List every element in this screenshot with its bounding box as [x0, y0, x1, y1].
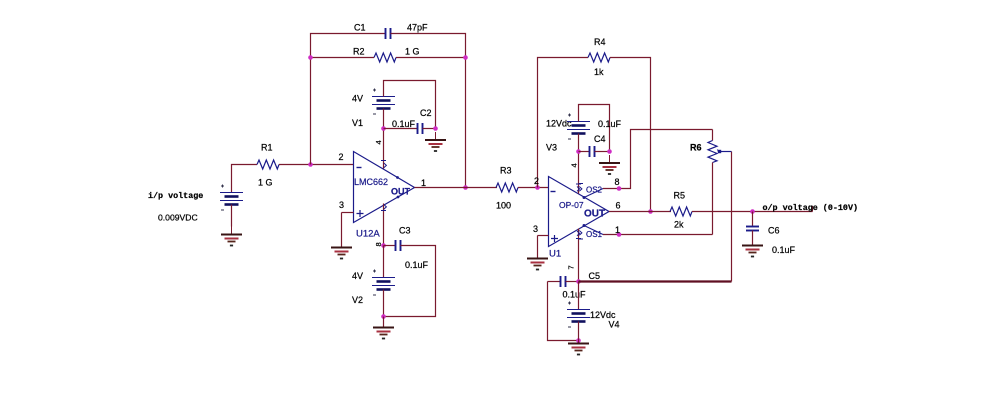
svg-text:4: 4	[374, 140, 383, 144]
junction pin7/C5/V4	[576, 279, 581, 284]
OS1 pin glyph	[583, 224, 586, 227]
capacitor C2	[418, 123, 423, 134]
wire V3 top loop to C4 right	[579, 105, 610, 152]
svg-text:R3: R3	[500, 166, 512, 176]
svg-text:R5: R5	[674, 191, 686, 201]
junction C4 right	[607, 149, 612, 154]
ground (input)	[221, 227, 242, 246]
wire C4 to ground node	[595, 151, 610, 153]
junction C6 at output	[750, 209, 755, 214]
junction R2 right	[463, 55, 468, 60]
battery V4	[567, 302, 590, 328]
junction OS2 wire	[617, 186, 622, 191]
wire V2 bottom to ground node	[383, 290, 385, 317]
resistor R5	[670, 207, 692, 216]
resistor R1	[257, 160, 279, 169]
wire C3 right loop to ground node	[384, 246, 436, 317]
svg-text:R1: R1	[261, 143, 273, 153]
wire OS1 to R6 bottom	[603, 234, 713, 236]
svg-text:2k: 2k	[674, 220, 684, 230]
junction V3/C4/pin4	[576, 149, 581, 154]
svg-text:12Vdc: 12Vdc	[546, 119, 572, 129]
capacitor C1	[386, 28, 391, 39]
wire pin3 to ground	[341, 213, 343, 248]
wire pin3	[342, 212, 354, 214]
wire U1 pin7 stub	[578, 229, 580, 282]
svg-text:i/p voltage: i/p voltage	[148, 191, 203, 201]
wire node to C4	[579, 151, 590, 153]
U1 pin 4 tick glyph	[576, 184, 581, 191]
resistor R2	[374, 53, 396, 62]
svg-text:2: 2	[339, 152, 344, 162]
capacitor C3	[396, 240, 401, 251]
svg-text:V4: V4	[609, 320, 620, 330]
svg-text:1 G: 1 G	[405, 47, 420, 57]
wire U1 output to R5	[609, 211, 671, 213]
op-amp U1 OP-07 triangle	[549, 177, 610, 247]
svg-text:100: 100	[496, 201, 511, 211]
wire Vin bottom to ground	[231, 205, 233, 227]
svg-text:OP-07: OP-07	[559, 200, 584, 210]
svg-text:C1: C1	[354, 23, 366, 33]
wire C2 to ground node	[423, 128, 436, 130]
junction OS1 wire	[617, 232, 622, 237]
wire C5 left	[548, 281, 561, 283]
junction pin2/R4	[535, 185, 540, 190]
svg-text:OUT: OUT	[584, 209, 605, 220]
junction pin8/C3/V2	[381, 243, 386, 248]
svg-text:C2: C2	[420, 108, 432, 118]
wire C1 right to output node	[391, 34, 466, 188]
wire node to C2	[384, 128, 418, 130]
wire thick rail node to wiper line	[579, 280, 732, 282]
svg-text:C3: C3	[399, 226, 411, 236]
wire R2 right	[396, 57, 466, 59]
svg-text:1: 1	[421, 178, 426, 188]
svg-text:U1: U1	[549, 249, 561, 260]
svg-text:R2: R2	[353, 47, 365, 57]
wire feedback left vertical to C1	[311, 34, 386, 165]
svg-text:0.009VDC: 0.009VDC	[158, 213, 198, 223]
svg-text:3: 3	[533, 224, 538, 234]
junction V1/C2/pin4	[381, 126, 386, 131]
wire V1 bottom to node	[383, 109, 385, 129]
svg-text:OUT: OUT	[391, 187, 411, 197]
svg-text:4V: 4V	[352, 271, 363, 281]
OS2 pin glyph	[583, 196, 586, 199]
ground (U1 pin3)	[527, 251, 548, 270]
junction feedback at output	[463, 185, 468, 190]
pin 8 tick glyph	[381, 205, 386, 211]
svg-text:C4: C4	[594, 134, 606, 144]
wire V4 bottom to ground node	[578, 322, 580, 341]
wire R4 right branch to output	[610, 58, 651, 212]
svg-text:1 G: 1 G	[258, 178, 273, 188]
svg-text:R6: R6	[690, 143, 702, 153]
wire output node to C6	[752, 212, 754, 227]
svg-text:47pF: 47pF	[407, 23, 428, 33]
wire node to V4 top	[578, 282, 580, 310]
resistor R3	[496, 183, 518, 192]
wire V1 top loop to C2 right	[384, 81, 436, 129]
svg-text:2: 2	[534, 176, 539, 186]
battery V2	[372, 270, 395, 296]
svg-text:V3: V3	[546, 143, 557, 153]
svg-text:V1: V1	[352, 118, 363, 128]
battery V1	[372, 89, 395, 115]
svg-text:8: 8	[615, 177, 620, 187]
svg-text:7: 7	[567, 265, 576, 269]
voltage source Vin battery	[220, 185, 243, 211]
resistor R6 (pot)	[708, 141, 717, 163]
svg-text:12Vdc: 12Vdc	[590, 310, 616, 320]
ground (V4)	[568, 336, 589, 355]
wire Vin top to R1	[232, 165, 258, 193]
svg-text:R4: R4	[594, 37, 606, 47]
output terminal tick	[812, 206, 814, 212]
ground (V2)	[373, 320, 394, 339]
svg-text:0.1uF: 0.1uF	[772, 245, 796, 255]
junction node at pin2/feedback	[308, 162, 313, 167]
battery V3	[567, 114, 590, 140]
svg-text:OS2: OS2	[586, 186, 603, 195]
svg-text:0.1uF: 0.1uF	[563, 290, 587, 300]
ground (C2)	[425, 132, 446, 151]
svg-text:4: 4	[570, 163, 579, 167]
wire R1 to op-amp U12A pin2	[279, 164, 354, 166]
svg-text:0.1uF: 0.1uF	[392, 119, 416, 129]
svg-text:0.1uF: 0.1uF	[405, 260, 429, 270]
svg-text:U12A: U12A	[356, 229, 380, 240]
wire U1 pin4 stub	[578, 152, 580, 194]
wire R3 to OP-07 pin2	[518, 187, 549, 189]
svg-text:V2: V2	[352, 295, 363, 305]
resistor R4	[588, 53, 610, 62]
wire R6 bottom lead to OS1 wire	[712, 163, 714, 235]
wire C5 left loop to ground node	[548, 282, 579, 341]
wire C6 bottom to ground	[752, 231, 754, 246]
capacitor C4	[590, 146, 595, 157]
wire U1 pin3 to ground	[537, 236, 539, 259]
svg-text:o/p voltage (0-10V): o/p voltage (0-10V)	[763, 203, 859, 213]
wire pin4 power stub	[383, 129, 385, 169]
wire node to C3	[384, 245, 396, 247]
svg-text:C6: C6	[768, 226, 780, 236]
ground (C6)	[742, 238, 763, 257]
R6 wiper arrow	[721, 151, 732, 153]
svg-text:3: 3	[339, 200, 344, 210]
wire U12A output to R3	[415, 187, 498, 189]
junction V2 ground node	[381, 314, 386, 319]
capacitor C5	[561, 276, 566, 287]
svg-text:4V: 4V	[352, 94, 363, 104]
wire wiper vertical	[731, 152, 733, 282]
junction C2 right	[433, 126, 438, 131]
svg-text:LMC662: LMC662	[354, 177, 388, 187]
junction R2 left	[308, 55, 313, 60]
junction R4 at output	[648, 209, 653, 214]
wire U1 pin3	[538, 235, 549, 237]
wire OS2 to R6 top	[603, 130, 713, 189]
capacitor C6	[746, 227, 759, 231]
junction V4 ground node	[576, 338, 581, 343]
wire R5 to output terminal	[692, 211, 813, 213]
wire R2 left	[311, 57, 375, 59]
svg-text:1k: 1k	[594, 67, 604, 77]
ground (C4)	[599, 155, 620, 174]
svg-text:C5: C5	[589, 271, 601, 281]
wire pin8 power stub	[383, 204, 385, 246]
svg-text:OS1: OS1	[586, 230, 603, 239]
wire C5 right to node	[566, 281, 579, 283]
svg-text:1: 1	[615, 225, 620, 235]
wire V3 bottom to node	[578, 134, 580, 152]
U1 pin 7 tick glyph	[576, 231, 581, 239]
ground (U12A pin3)	[331, 240, 352, 259]
wire R4 left branch	[538, 58, 589, 188]
svg-text:6: 6	[616, 201, 621, 211]
wire node to V2 top	[383, 246, 385, 278]
pin 4 tick glyph	[381, 161, 386, 168]
svg-text:0.1uF: 0.1uF	[598, 119, 622, 129]
wire stub to ground symbol	[383, 317, 385, 328]
wire R6 top lead	[712, 130, 714, 141]
op-amp U12A LMC662 triangle	[354, 152, 415, 223]
